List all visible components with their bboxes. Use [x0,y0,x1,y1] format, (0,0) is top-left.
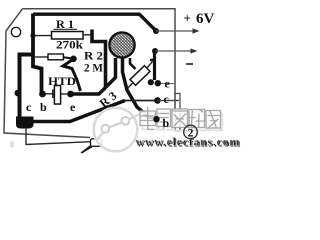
pad bottom-left [16,117,34,129]
svg-text:+: + [184,11,191,26]
wire R1 right bend down staircase [92,30,106,89]
jack J1 [91,139,102,147]
piezo HTD body [54,86,60,105]
arrowhead +6V [193,28,200,33]
mounting hole [11,27,20,36]
board outline (outer thin edge) [4,9,175,138]
node b pad [39,91,46,98]
wire R1 left lead [34,35,52,37]
svg-text:2 M: 2 M [84,61,103,75]
svg-text:e: e [165,77,171,91]
wire R3 upper lead [147,62,153,69]
node minus rail foot [148,79,154,85]
node minus takeoff [152,48,158,54]
wire R3 lower lead [128,82,134,89]
wire rail A lower stub to base [33,53,42,94]
arrowhead minus [191,48,198,53]
node c pad [14,90,21,97]
svg-text:270k: 270k [56,38,83,52]
wire transistor collector leg stub [130,58,136,69]
wire emitter run [72,58,116,94]
svg-text:2: 2 [188,126,194,140]
resistor R1 body [52,32,84,40]
node c' terminal redrawn [154,97,160,103]
wire transistor base leg to b' [123,58,156,119]
node +6V takeoff [153,28,159,34]
connector channel right edge [175,94,180,132]
wire top +6V rail [33,12,140,15]
watermark sparkle bottom-left [10,141,15,149]
wire +6V lead [156,30,194,32]
resistor R3 body [130,66,150,86]
wire pad to jack [26,128,91,145]
wire minus lead [155,50,192,52]
svg-text:6V: 6V [196,11,215,27]
watermark CJK text [140,107,222,131]
label R1 underline [54,28,78,30]
plug wedge [81,145,93,154]
node e' terminal [155,80,161,86]
wire minus rail down [153,51,156,80]
wire bevel to +6V [139,14,156,31]
wire R1 right lead [83,34,91,36]
node R1 junction [30,33,35,38]
svg-text:HTD: HTD [48,74,76,88]
wire R2 left lead [35,56,48,58]
resistor R2 body [48,54,63,60]
wire bottom rail [30,101,125,122]
svg-text:c: c [164,92,170,106]
svg-text:e: e [70,100,76,114]
wire to c' terminal [125,100,158,102]
wire R2 right lead [63,57,70,58]
piezo HTD left plate [52,90,54,99]
node c' terminal [154,97,160,103]
wire rail A to rail B jog [20,55,35,119]
svg-text:c: c [26,100,32,114]
watermark url text [136,135,242,150]
node R3 junction on minus rail [150,59,155,62]
wire HTD left lead [45,93,54,95]
wire HTD right lead [61,93,67,95]
wire e' to edge [161,83,174,85]
wire c' to edge [158,100,180,102]
wire left rail A [31,14,35,55]
label minus [186,63,193,65]
node R2 right [70,56,77,63]
node b' terminal [153,116,159,122]
wire c' lead [158,100,180,102]
watermark logo [94,108,140,152]
wire R2 squiggle down [63,59,81,91]
svg-text:b: b [40,100,47,114]
svg-text:b: b [163,116,170,130]
node e pad [67,91,74,98]
figure number 2 [184,125,198,139]
